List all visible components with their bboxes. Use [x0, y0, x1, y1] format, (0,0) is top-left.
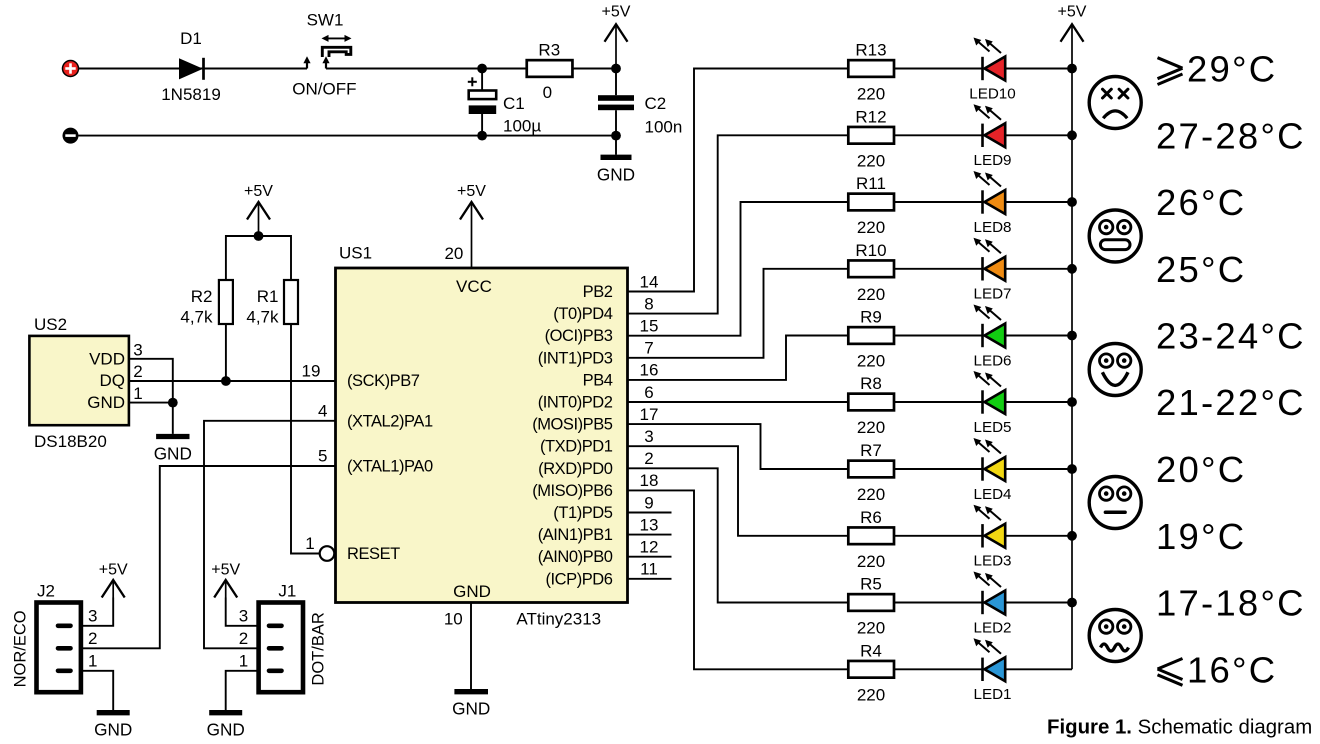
- pin number 11: [640, 560, 658, 579]
- wire R11 to LED8: [894, 201, 983, 203]
- label LED2: [974, 619, 1012, 636]
- svg-text:6: 6: [644, 383, 653, 402]
- label LED1: [974, 686, 1012, 703]
- svg-text:3: 3: [644, 427, 653, 446]
- svg-text:VCC: VCC: [456, 277, 492, 296]
- wire LED3 to +5V bus: [1005, 535, 1072, 537]
- label R3: [538, 41, 560, 60]
- svg-text:LED5: LED5: [974, 419, 1012, 436]
- svg-text:1: 1: [133, 384, 142, 403]
- svg-text:2: 2: [239, 629, 248, 648]
- junction bus row 9: [1067, 598, 1077, 608]
- svg-text:GND: GND: [154, 444, 192, 464]
- label R13: [855, 41, 886, 60]
- label temp 20°C: [1156, 449, 1246, 490]
- svg-text:1: 1: [88, 651, 97, 670]
- label temp 17-18°C: [1156, 583, 1306, 624]
- label R7 value 220: [857, 485, 885, 504]
- pin number 1 US2: [133, 384, 142, 403]
- resistor R5: [848, 594, 894, 611]
- label R9 value 220: [857, 352, 885, 371]
- svg-text:+5V: +5V: [244, 183, 273, 200]
- svg-text:19: 19: [302, 361, 321, 380]
- svg-text:R4: R4: [860, 641, 882, 660]
- led LED5: [974, 371, 1006, 414]
- pin number 9: [644, 493, 653, 512]
- wire LED10 to +5V bus: [1005, 68, 1072, 70]
- label R6: [860, 508, 882, 527]
- svg-text:PB4: PB4: [583, 371, 613, 389]
- svg-text:+5V: +5V: [211, 562, 240, 579]
- label 0: [543, 83, 552, 102]
- wire LED7 to +5V bus: [1005, 268, 1072, 270]
- pin label PB2: [583, 283, 613, 301]
- label D1: [180, 29, 202, 48]
- wire US1 pin 8 to R12: [628, 135, 849, 313]
- svg-text:(INT0)PD2: (INT0)PD2: [538, 394, 613, 412]
- label LED10: [969, 85, 1015, 102]
- svg-text:7: 7: [644, 339, 653, 358]
- pin number 5: [318, 447, 327, 466]
- pin number J1 2: [239, 629, 248, 648]
- label LED5: [974, 419, 1012, 436]
- svg-text:GND: GND: [453, 582, 491, 601]
- svg-text:220: 220: [857, 218, 885, 237]
- pin label (RXD)PD0: [538, 460, 613, 478]
- led LED9: [974, 104, 1006, 147]
- wire US1 pin 18 to R4: [628, 490, 849, 669]
- junction bus row 5: [1067, 331, 1077, 341]
- svg-text:27-28°C: 27-28°C: [1156, 116, 1306, 157]
- wire US1 pin 6 to R8: [628, 401, 849, 403]
- svg-text:220: 220: [857, 485, 885, 504]
- ground below J1: [207, 713, 245, 740]
- label DS18B20: [34, 432, 107, 451]
- pin label (T1)PD5: [553, 504, 612, 522]
- label R11 value 220: [857, 218, 885, 237]
- svg-text:25°C: 25°C: [1156, 249, 1246, 290]
- svg-text:(SCK)PB7: (SCK)PB7: [347, 372, 420, 390]
- label 1N5819: [161, 85, 221, 104]
- power +5V led bus: [1058, 4, 1087, 670]
- svg-text:LED6: LED6: [974, 352, 1012, 369]
- stub US1 pin 13: [628, 534, 672, 536]
- svg-text:15: 15: [640, 317, 659, 336]
- label temp 23-24°C: [1156, 316, 1306, 357]
- svg-text:GND: GND: [452, 699, 490, 719]
- label R1 value 4,7k: [246, 308, 279, 327]
- junction bus row 4: [1067, 264, 1077, 274]
- power +5V above VCC: [457, 183, 486, 268]
- svg-text:5: 5: [318, 447, 327, 466]
- svg-text:GND: GND: [94, 720, 132, 740]
- wire R9 to LED6: [894, 335, 983, 337]
- svg-text:J1: J1: [278, 582, 296, 601]
- resistor R8: [848, 394, 894, 411]
- stub US1 pin 9: [628, 512, 672, 514]
- svg-text:PB2: PB2: [583, 283, 613, 301]
- pin 10 wire to ground: [470, 603, 472, 690]
- pin number 14: [640, 272, 659, 291]
- caption Figure 1: [1047, 717, 1312, 739]
- svg-text:LED10: LED10: [969, 85, 1015, 102]
- svg-text:(RXD)PD0: (RXD)PD0: [538, 460, 613, 478]
- svg-text:(INT1)PD3: (INT1)PD3: [538, 349, 613, 367]
- capacitor C1: [468, 69, 496, 136]
- pin label (INT1)PD3: [538, 349, 613, 367]
- resistor R6: [848, 527, 894, 544]
- label ATtiny2313: [516, 610, 601, 629]
- svg-text:+5V: +5V: [457, 183, 486, 200]
- svg-text:2: 2: [644, 449, 653, 468]
- pin number J2 2: [88, 629, 97, 648]
- led LED10: [974, 38, 1006, 81]
- svg-text:(OCI)PB3: (OCI)PB3: [545, 327, 613, 345]
- icon smiley happy: [1089, 344, 1141, 396]
- svg-text:26°C: 26°C: [1156, 182, 1246, 223]
- pin label SCK PB7: [347, 372, 420, 390]
- ground below US2: [154, 437, 192, 464]
- led LED8: [974, 171, 1006, 214]
- pin number 20: [444, 244, 463, 263]
- label 100n: [645, 118, 683, 137]
- pin label VCC: [456, 277, 492, 296]
- label temp 21-22°C: [1156, 382, 1306, 423]
- resistor R2: [219, 280, 233, 324]
- svg-text:GND: GND: [207, 720, 245, 740]
- junction bus row 8: [1067, 531, 1077, 541]
- wire US2 ground drop: [172, 403, 174, 434]
- label R9: [860, 308, 882, 327]
- svg-text:DS18B20: DS18B20: [34, 432, 107, 451]
- pin label VDD: [89, 350, 125, 369]
- wire R7 to LED4: [894, 468, 983, 470]
- resistor R3: [527, 60, 573, 77]
- junction bus row 2: [1067, 130, 1077, 140]
- junction C1 bottom: [477, 131, 487, 141]
- wire R2 to DQ net: [225, 324, 227, 381]
- svg-text:R8: R8: [860, 374, 882, 393]
- resistor R12: [848, 127, 894, 144]
- label LED4: [974, 486, 1012, 503]
- pin number 12: [640, 538, 659, 557]
- reset circle pin 1: [320, 546, 335, 561]
- wire R8 to LED5: [894, 401, 983, 403]
- pin number 19: [302, 361, 321, 380]
- label LED6: [974, 352, 1012, 369]
- label LED8: [974, 219, 1012, 236]
- svg-text:17-18°C: 17-18°C: [1156, 583, 1306, 624]
- svg-text:(TXD)PD1: (TXD)PD1: [540, 438, 613, 456]
- icon smiley shocked: [1089, 210, 1141, 262]
- svg-text:Figure 1. Schematic diagram: Figure 1. Schematic diagram: [1047, 717, 1312, 739]
- ic US2 body: [29, 336, 128, 425]
- svg-text:3: 3: [239, 606, 248, 625]
- svg-text:R13: R13: [855, 41, 886, 60]
- wire US1 pin 3 to R6: [628, 446, 849, 536]
- svg-text:220: 220: [857, 418, 885, 437]
- label NOR/ECO: [11, 610, 29, 687]
- svg-text:13: 13: [640, 515, 659, 534]
- pin label (MOSI)PB5: [532, 416, 613, 434]
- svg-text:21-22°C: 21-22°C: [1156, 382, 1306, 423]
- svg-text:(T0)PD4: (T0)PD4: [553, 305, 612, 323]
- wire DQ net to US1 pin 19: [129, 380, 336, 382]
- wire US1 pin 15 to R11: [628, 202, 849, 336]
- wire J1 pin 3 to +5V: [226, 598, 259, 626]
- svg-text:GND: GND: [87, 393, 125, 412]
- label C1: [503, 94, 525, 113]
- switch SW1: [303, 35, 351, 69]
- svg-text:220: 220: [857, 152, 885, 171]
- icon smiley worried: [1089, 610, 1141, 662]
- svg-text:R9: R9: [860, 308, 882, 327]
- label R2: [191, 287, 213, 306]
- svg-text:+5V: +5V: [1058, 4, 1087, 21]
- svg-text:(T1)PD5: (T1)PD5: [553, 504, 612, 522]
- label R2 value 4,7k: [180, 308, 213, 327]
- svg-text:0: 0: [543, 83, 552, 102]
- svg-text:(XTAL2)PA1: (XTAL2)PA1: [347, 412, 433, 430]
- ground below J2: [94, 713, 132, 740]
- svg-text:220: 220: [857, 285, 885, 304]
- wire - terminal ground rail: [79, 135, 617, 137]
- svg-text:3: 3: [133, 340, 142, 359]
- wire + terminal to SW1 left contact: [79, 68, 308, 70]
- label temp 25°C: [1156, 249, 1246, 290]
- pin label GND US1: [453, 582, 491, 601]
- svg-text:16°C: 16°C: [1187, 650, 1277, 691]
- pin label (INT0)PD2: [538, 394, 613, 412]
- svg-text:23-24°C: 23-24°C: [1156, 316, 1306, 357]
- pin label (ICP)PD6: [546, 570, 613, 588]
- connector J1 body: [259, 603, 303, 693]
- led LED6: [974, 305, 1006, 348]
- pin number 13: [640, 515, 659, 534]
- label J1: [278, 582, 296, 601]
- resistor R9: [848, 327, 894, 344]
- pin number 15: [640, 317, 659, 336]
- svg-text:SW1: SW1: [307, 10, 344, 29]
- label temp 26°C: [1156, 182, 1246, 223]
- wire LED9 to +5V bus: [1005, 134, 1072, 136]
- label R4: [860, 641, 882, 660]
- label US2: [34, 315, 67, 334]
- ic US1 body: [336, 268, 628, 603]
- svg-text:R7: R7: [860, 441, 882, 460]
- icon smiley dead: [1089, 77, 1141, 129]
- junction US2 ground: [168, 398, 178, 408]
- wire LED6 to +5V bus: [1005, 335, 1072, 337]
- pin number 6: [644, 383, 653, 402]
- label R1: [257, 287, 279, 306]
- pin number 2 US2: [133, 362, 142, 381]
- pin label XTAL2 PA1: [347, 412, 433, 430]
- wire US1 pin 16 to R9: [628, 336, 849, 380]
- pin number J2 1: [88, 651, 97, 670]
- label R11: [856, 174, 886, 193]
- svg-text:(AIN1)PB1: (AIN1)PB1: [538, 526, 613, 544]
- svg-text:R3: R3: [538, 41, 560, 60]
- led LED7: [974, 238, 1006, 281]
- resistor R1: [284, 280, 298, 324]
- node + supply terminal: [63, 61, 79, 77]
- label R8 value 220: [857, 418, 885, 437]
- label R5: [860, 575, 882, 594]
- label R13 value 220: [857, 85, 885, 104]
- icon smiley neutral: [1089, 477, 1141, 529]
- svg-text:+5V: +5V: [99, 562, 128, 579]
- node - supply terminal: [63, 128, 79, 144]
- svg-text:2: 2: [88, 629, 97, 648]
- pin number 2: [644, 449, 653, 468]
- svg-text:10: 10: [444, 610, 463, 629]
- ground below C2: [597, 157, 635, 184]
- svg-text:C2: C2: [645, 94, 667, 113]
- label temp >=29°C: [1158, 49, 1278, 90]
- svg-text:LED8: LED8: [974, 219, 1012, 236]
- label 100µ: [503, 116, 541, 135]
- wire US1 pin 14 to R13: [628, 69, 849, 292]
- pin number 3: [644, 427, 653, 446]
- svg-text:220: 220: [857, 686, 885, 705]
- svg-text:1: 1: [239, 651, 248, 670]
- ground below US1: [452, 692, 490, 719]
- wire LED2 to +5V bus: [1005, 602, 1072, 604]
- svg-text:(AIN0)PB0: (AIN0)PB0: [538, 548, 613, 566]
- label C2: [645, 94, 667, 113]
- svg-text:100n: 100n: [645, 118, 683, 137]
- pin number 16: [640, 361, 659, 380]
- svg-text:100µ: 100µ: [503, 116, 541, 135]
- label R7: [860, 441, 882, 460]
- svg-text:220: 220: [857, 85, 885, 104]
- svg-text:19°C: 19°C: [1156, 516, 1246, 557]
- label LED9: [974, 152, 1012, 169]
- svg-text:LED2: LED2: [974, 619, 1012, 636]
- pin label (TXD)PD1: [540, 438, 613, 456]
- label temp 27-28°C: [1156, 116, 1306, 157]
- svg-text:R10: R10: [855, 241, 886, 260]
- power +5V rail top: [602, 4, 631, 69]
- stub US1 pin 12: [628, 556, 672, 558]
- led LED1: [974, 638, 1006, 681]
- wire US1 pin 17 to R7: [628, 424, 849, 469]
- svg-text:LED1: LED1: [974, 686, 1012, 703]
- pin number J1 3: [239, 606, 248, 625]
- svg-text:LED3: LED3: [974, 553, 1012, 570]
- wire R3 to +5V node: [572, 68, 616, 70]
- label R8: [860, 374, 882, 393]
- svg-text:VDD: VDD: [89, 350, 125, 369]
- svg-text:DQ: DQ: [100, 371, 126, 390]
- pin number 7: [644, 339, 653, 358]
- wire R13 to LED10: [894, 68, 983, 70]
- pin label XTAL1 PA0: [347, 458, 433, 476]
- label R10: [855, 241, 886, 260]
- svg-text:9: 9: [644, 493, 653, 512]
- svg-text:12: 12: [640, 538, 659, 557]
- label temp 19°C: [1156, 516, 1246, 557]
- wire J1 pin 1 to ground: [226, 671, 259, 710]
- svg-text:8: 8: [644, 294, 653, 313]
- svg-text:17: 17: [640, 405, 659, 424]
- svg-text:16: 16: [640, 361, 659, 380]
- junction C2 bottom: [611, 131, 621, 141]
- label R12 value 220: [857, 152, 885, 171]
- svg-text:DOT/BAR: DOT/BAR: [310, 612, 328, 685]
- resistor R4: [848, 661, 894, 678]
- pin number 8: [644, 294, 653, 313]
- junction bus row 6: [1067, 397, 1077, 407]
- wire R2 top rail: [226, 236, 291, 280]
- label J2: [37, 582, 55, 601]
- pin number 18: [640, 471, 659, 490]
- svg-text:4,7k: 4,7k: [246, 308, 279, 327]
- svg-text:(MISO)PB6: (MISO)PB6: [532, 482, 613, 500]
- pin label (MISO)PB6: [532, 482, 613, 500]
- junction C1 top: [477, 64, 487, 74]
- pin label (OCI)PB3: [545, 327, 613, 345]
- svg-text:220: 220: [857, 552, 885, 571]
- pin label (T0)PD4: [553, 305, 612, 323]
- svg-text:4,7k: 4,7k: [180, 308, 213, 327]
- diode D1: [179, 58, 204, 80]
- pin number 10: [444, 610, 463, 629]
- svg-text:+5V: +5V: [602, 4, 631, 21]
- wire LED5 to +5V bus: [1005, 401, 1072, 403]
- svg-text:(MOSI)PB5: (MOSI)PB5: [532, 416, 613, 434]
- label SW1: [307, 10, 344, 29]
- label US1: [339, 244, 372, 263]
- junction C2 top: [611, 64, 621, 74]
- led LED2: [974, 572, 1006, 615]
- svg-text:LED4: LED4: [974, 486, 1012, 503]
- svg-text:ON/OFF: ON/OFF: [292, 80, 356, 99]
- wire R6 to LED3: [894, 535, 983, 537]
- wire C2 to ground: [615, 136, 617, 155]
- svg-text:US1: US1: [339, 244, 372, 263]
- label ON/OFF: [292, 80, 356, 99]
- wire US1 pin 5 to J2 pin 2: [81, 466, 336, 648]
- svg-text:GND: GND: [597, 164, 635, 184]
- junction bus row 3: [1067, 197, 1077, 207]
- junction bus row 1: [1067, 64, 1077, 74]
- svg-text:LED7: LED7: [974, 286, 1012, 303]
- pin number 17: [640, 405, 659, 424]
- wire SW1 to R3: [326, 68, 527, 70]
- pin label (AIN1)PB1: [538, 526, 613, 544]
- svg-text:LED9: LED9: [974, 152, 1012, 169]
- pin label RESET: [347, 545, 400, 563]
- wire J2 pin 1 to ground: [81, 671, 113, 710]
- label R4 value 220: [857, 686, 885, 705]
- svg-text:29°C: 29°C: [1187, 49, 1277, 90]
- pin number 4: [318, 401, 327, 420]
- svg-text:18: 18: [640, 471, 659, 490]
- power +5V J2: [99, 562, 128, 598]
- wire US1 pin 7 to R10: [628, 269, 849, 358]
- pin number 1: [305, 534, 314, 553]
- pin label GND US2: [87, 393, 125, 412]
- svg-text:(XTAL1)PA0: (XTAL1)PA0: [347, 458, 433, 476]
- label LED3: [974, 553, 1012, 570]
- svg-text:2: 2: [133, 362, 142, 381]
- junction bus row 7: [1067, 464, 1077, 474]
- connector J2 body: [37, 603, 81, 693]
- wire LED1 to +5V bus: [1005, 668, 1072, 670]
- wire LED4 to +5V bus: [1005, 468, 1072, 470]
